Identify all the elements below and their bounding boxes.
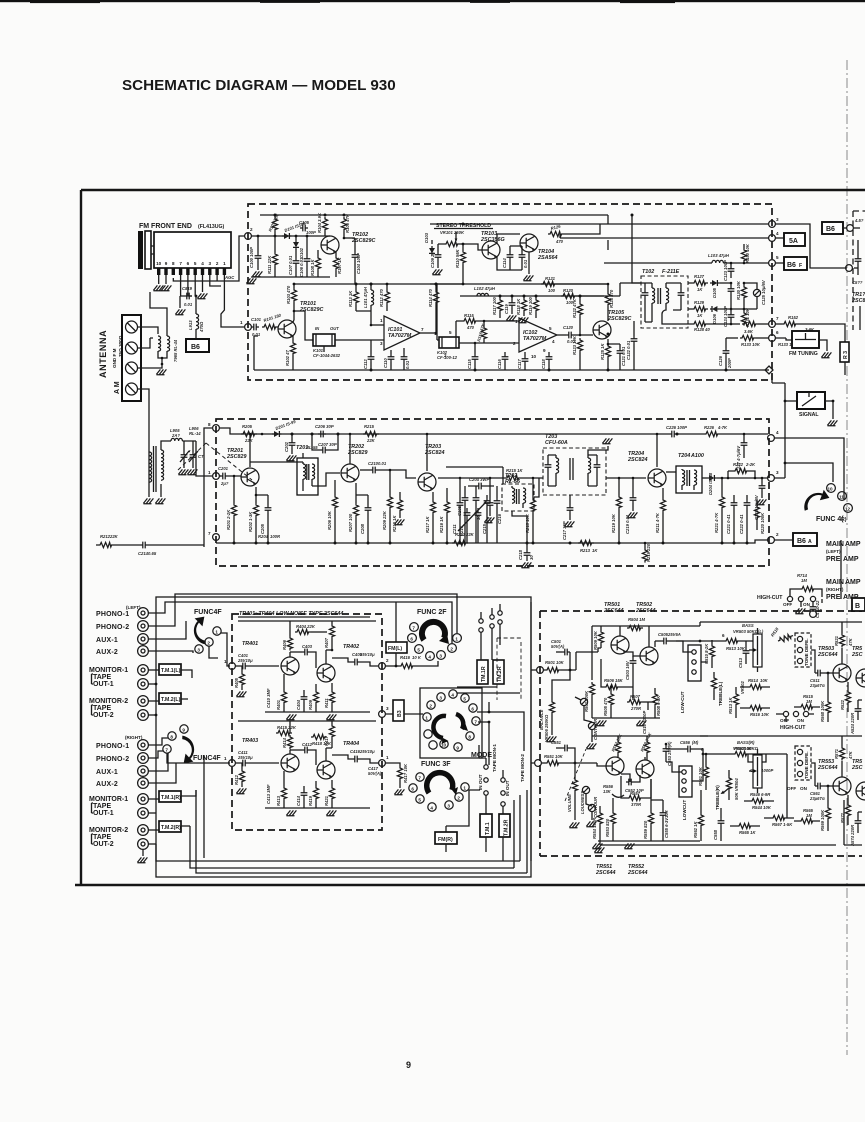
second rail [293, 283, 608, 285]
svg-text:9: 9 [182, 728, 185, 733]
R569 100K bias [827, 786, 829, 806]
svg-text:C219 0.01: C219 0.01 [625, 514, 630, 534]
terminal left edge L [537, 667, 544, 674]
svg-text:C410 3MF: C410 3MF [266, 688, 271, 708]
AUX-1 R jack [138, 766, 149, 777]
TREBLE(L) pot [711, 676, 716, 691]
svg-text:AGC: AGC [224, 275, 235, 280]
svg-text:FUNC4F: FUNC4F [193, 755, 221, 762]
svg-text:OUT-1: OUT-1 [93, 810, 114, 817]
R130 10K [741, 285, 746, 300]
C217 under T203 [569, 495, 571, 505]
resistor R111 22K [272, 252, 277, 267]
svg-text:B6: B6 [826, 226, 835, 233]
svg-text:0.01: 0.01 [523, 259, 528, 268]
svg-text:D105: D105 [712, 287, 717, 298]
svg-text:2SC829C: 2SC829C [299, 307, 323, 313]
terminal 2 right edge [379, 663, 386, 670]
C227 cap [743, 434, 745, 440]
R125 1K under TR105 emitter [607, 339, 609, 344]
svg-text:BASS: BASS [742, 623, 754, 628]
C551 cap [556, 747, 562, 749]
svg-text:R514: R514 [748, 678, 759, 683]
C503 cap [632, 656, 634, 658]
svg-text:10: 10 [156, 261, 162, 266]
svg-text:22K: 22K [109, 534, 119, 539]
svg-text:R129: R129 [694, 300, 705, 305]
C223 cap [761, 478, 763, 483]
svg-text:C216: C216 [497, 513, 502, 524]
HIGH-CUT switch contacts [787, 596, 792, 601]
C201 coupling cap [220, 473, 228, 480]
C210 coupling cap [360, 469, 370, 471]
R407 [329, 624, 334, 639]
svg-text:0.01: 0.01 [405, 360, 410, 369]
wire rod to term 1 of AM box [196, 441, 212, 476]
TR204 to T204 [666, 471, 676, 473]
svg-text:6: 6 [411, 787, 414, 792]
svg-text:R206 10K: R206 10K [327, 510, 332, 530]
pin 4 wire [202, 275, 204, 292]
svg-text:CFU-60A: CFU-60A [545, 440, 568, 446]
svg-text:R117 100: R117 100 [492, 296, 497, 315]
svg-text:T.M.2(R): T.M.2(R) [161, 825, 181, 831]
svg-text:MONITOR-1: MONITOR-1 [89, 796, 128, 803]
transistor TR501 [611, 636, 629, 654]
AUX-1 L jack [138, 634, 149, 645]
C218 detector cap [526, 542, 529, 545]
svg-text:D204 IS188: D204 IS188 [708, 472, 713, 495]
wire MONITOR-1 L to TM1 [148, 669, 159, 671]
svg-text:B6: B6 [191, 344, 200, 351]
svg-text:R114 470: R114 470 [428, 288, 433, 307]
svg-text:TAPE: TAPE [93, 834, 111, 841]
svg-text:R544 10K: R544 10K [752, 805, 772, 810]
svg-text:1M: 1M [806, 813, 812, 818]
svg-text:2SC644: 2SC644 [817, 652, 837, 658]
antenna terminal strip [122, 315, 141, 401]
svg-text:5: 5 [463, 697, 466, 702]
svg-text:AUX-1: AUX-1 [96, 637, 118, 644]
TR403 collector resistor [289, 721, 291, 754]
svg-text:C551: C551 [551, 740, 562, 745]
R219 220 hang [644, 543, 646, 548]
R127 1K + D105 [688, 282, 692, 284]
C414 [303, 786, 305, 790]
TAPE OUT-2 L jack [138, 710, 149, 721]
bottom bus wires [156, 755, 527, 873]
balun coil L-A [158, 336, 161, 351]
terminal 1 [245, 324, 252, 331]
top supply rail [260, 214, 608, 216]
C403 coupling [290, 651, 302, 653]
svg-text:8: 8 [170, 735, 173, 740]
R110 56K [460, 250, 465, 265]
balun coil L-B [167, 336, 170, 351]
svg-text:10K: 10K [556, 660, 565, 665]
diode D101 [282, 233, 291, 239]
svg-text:R216 1K: R216 1K [439, 515, 444, 533]
R201 2.2K bias resistor [233, 476, 235, 503]
C562 cut fragment [858, 812, 862, 818]
svg-text:R521: R521 [834, 635, 839, 646]
wire into signal meter [785, 400, 798, 402]
transistor TR103 [482, 241, 500, 259]
C404 [303, 690, 305, 694]
R568 100K bias [827, 673, 829, 700]
PHONO-2 L jack [138, 621, 149, 632]
T203 top ground [588, 446, 608, 455]
svg-text:C403: C403 [302, 644, 313, 649]
FUNC4F contact 2 [205, 638, 213, 646]
svg-text:R201 2-2K: R201 2-2K [226, 509, 231, 530]
HIGH-CUT mid switch [783, 711, 788, 716]
ground under C819 left [179, 296, 181, 308]
svg-text:30: 30 [529, 555, 534, 560]
svg-text:100: 100 [548, 288, 556, 293]
R215b 1K series [505, 475, 521, 480]
svg-text:MONITOR-1: MONITOR-1 [89, 667, 128, 674]
resistor R215 22K [363, 431, 379, 436]
C104 cap [354, 238, 356, 252]
svg-text:TA7027M: TA7027M [388, 333, 412, 339]
junction dots middle box [233, 433, 749, 545]
svg-text:D103: D103 [424, 232, 429, 243]
svg-text:R510 8-2K: R510 8-2K [704, 643, 709, 664]
svg-text:TR402: TR402 [343, 644, 359, 650]
svg-text:D106: D106 [712, 313, 717, 324]
TR401 collector resistor [289, 621, 291, 657]
transistor TR502 [640, 647, 658, 665]
supply rail top [238, 620, 376, 622]
terminal 4 right [768, 435, 775, 442]
svg-text:6: 6 [471, 707, 474, 712]
svg-text:R504 1M: R504 1M [628, 617, 646, 622]
input section wire box [156, 597, 531, 877]
wire pin4 to 5A [775, 237, 784, 239]
svg-text:TR401~TR404 LOW NOISE TYPE 2: TR401~TR404 LOW NOISE TYPE 2SC644 [239, 611, 343, 617]
svg-text:L913: L913 [188, 320, 193, 330]
junction dot left bus [155, 683, 158, 686]
R411 emitter [331, 683, 333, 690]
switch ground [800, 602, 802, 607]
svg-text:22K: 22K [244, 438, 254, 443]
capacitor C101 [251, 324, 259, 331]
svg-text:MONITOR-2: MONITOR-2 [89, 827, 128, 834]
terminal 7 [213, 534, 220, 541]
potentiometer VR101 [444, 241, 460, 246]
volume gang dashed link [565, 749, 586, 801]
svg-text:C117: C117 [517, 359, 522, 369]
diode D102 vertical [295, 236, 297, 240]
svg-text:PHONO-2: PHONO-2 [96, 624, 129, 631]
svg-text:10 K: 10 K [412, 655, 422, 660]
IN OUT contacts mid [484, 765, 488, 769]
svg-text:R124 470: R124 470 [609, 289, 614, 308]
svg-text:VR506 250KΩ: VR506 250KΩ [544, 714, 549, 742]
bottom rail [254, 369, 762, 371]
svg-text:C217 36P: C217 36P [562, 521, 567, 540]
svg-text:C119: C119 [504, 304, 509, 314]
TR103 collector/emitter wires [497, 234, 520, 243]
coil L913 [195, 296, 197, 314]
wire TAPE OUT-2 L [148, 714, 156, 716]
R509 collector resistor [598, 630, 603, 645]
svg-text:R219 220: R219 220 [646, 543, 651, 562]
svg-text:R118 1K: R118 1K [516, 298, 521, 315]
wire MONITOR-1 R to TM1R [148, 798, 159, 800]
svg-text:2: 2 [776, 532, 779, 537]
5A reference box [784, 233, 805, 246]
signal meter ground [827, 420, 837, 425]
outer frame [75, 190, 865, 885]
svg-text:3: 3 [380, 341, 383, 346]
junction node C819-L913 [195, 295, 198, 298]
R121 100 resistor [541, 281, 557, 286]
svg-text:OFF: OFF [787, 786, 796, 791]
svg-text:C114: C114 [502, 258, 507, 268]
svg-text:R561 10K: R561 10K [698, 766, 703, 786]
svg-text:6: 6 [722, 633, 725, 638]
svg-text:FM(L): FM(L) [388, 646, 402, 652]
svg-text:1: 1 [425, 716, 428, 721]
pin 5 wire joins L913 node [194, 275, 196, 296]
pins [157, 268, 226, 275]
C105 coupling cap [300, 225, 308, 232]
svg-text:3: 3 [776, 217, 779, 222]
svg-text:R415 22K: R415 22K [277, 725, 297, 730]
R513 1K [735, 687, 737, 692]
svg-text:1: 1 [208, 470, 211, 475]
feed wire to T102 [632, 215, 641, 283]
op-amp IC101 TA7027M [384, 316, 420, 350]
svg-text:2SC644: 2SC644 [603, 608, 623, 614]
svg-text:R112 470: R112 470 [379, 288, 384, 307]
svg-text:10: 10 [817, 608, 823, 613]
svg-text:1M: 1M [801, 578, 807, 583]
terminal at sheet edge [846, 265, 853, 272]
svg-text:2SC644: 2SC644 [817, 765, 837, 771]
R113 1K [353, 290, 358, 305]
svg-text:A100: A100 [690, 453, 704, 459]
transistor TR202 [341, 464, 359, 482]
wire front end pin8 to terminal 2 [173, 236, 244, 281]
pin 1 wire down to mixer out [221, 275, 244, 327]
svg-text:R220 100K: R220 100K [760, 512, 765, 534]
svg-text:R209 22K: R209 22K [382, 510, 387, 530]
TR104 ground [528, 252, 530, 274]
svg-text:TR403: TR403 [242, 738, 258, 744]
transistor TR402 [317, 664, 335, 682]
C556 cap top of lowcut [666, 748, 685, 750]
svg-text:TM.1R: TM.1R [481, 666, 487, 682]
svg-text:3: 3 [197, 648, 200, 653]
svg-text:R110 56K: R110 56K [455, 248, 460, 268]
svg-text:R127: R127 [694, 274, 705, 279]
svg-text:2SC: 2SC [851, 765, 863, 771]
svg-text:R120: R120 [563, 288, 574, 293]
svg-text:PRE: PRE [826, 594, 841, 601]
AUX-2 L jack [138, 646, 149, 657]
C505 cap [655, 640, 661, 642]
page fold line [846, 60, 848, 1055]
R221 4.7K [721, 478, 723, 495]
rail second to L102 [460, 295, 604, 297]
svg-text:100P: 100P [306, 230, 316, 235]
svg-text:CF-1044-2632: CF-1044-2632 [313, 353, 341, 358]
R563 10K [733, 751, 749, 756]
wire pin6 to FM TUNING [775, 338, 792, 340]
R502 100K [591, 626, 593, 680]
PHONO-2 R jack [138, 753, 149, 764]
BASS pot slider [753, 634, 762, 667]
svg-text:OFF: OFF [783, 602, 792, 607]
R124 470 above TR105 [605, 292, 610, 307]
wire to CT caps [182, 441, 196, 452]
wire terminal 3 to FUNC4 [774, 463, 833, 482]
BALANCE pot [552, 670, 570, 700]
wire balun up to front end [150, 292, 167, 332]
R220 100K [754, 505, 759, 520]
R226 4.7K on rail [704, 431, 720, 436]
variable capacitor CT-A [181, 452, 188, 460]
svg-text:R522: R522 [840, 699, 845, 710]
svg-text:7: 7 [474, 720, 477, 725]
svg-text:D102: D102 [299, 247, 304, 258]
R561 10K [705, 754, 707, 765]
svg-text:R421: R421 [324, 795, 329, 806]
svg-text:R507: R507 [630, 694, 641, 699]
capacitor C107 [293, 258, 300, 266]
svg-text:CT: CT [198, 454, 204, 459]
svg-text:VR503 50KΩ(L): VR503 50KΩ(L) [733, 629, 764, 634]
MONITOR-2 L jack [138, 696, 149, 707]
svg-text:1: 1 [386, 755, 389, 760]
terminal 3 right edge [379, 711, 386, 718]
R206 bias [334, 480, 336, 495]
R116 47K [483, 321, 485, 326]
svg-text:R205: R205 [242, 424, 253, 429]
svg-text:7: 7 [776, 316, 779, 321]
resistor R106 47K [341, 217, 346, 232]
tape monitor switch contacts [479, 619, 483, 623]
svg-text:R508 6-8K: R508 6-8K [656, 695, 661, 716]
TR101 collector wire [293, 320, 294, 322]
screw terminal FM75 [126, 342, 138, 354]
TR404 out C416 [332, 755, 352, 759]
rail from terminal 2 [251, 235, 330, 237]
svg-text:C208: C208 [360, 523, 365, 534]
C226 cap on rail [669, 431, 677, 438]
PHONO-1 R jack [138, 740, 149, 751]
svg-text:R409: R409 [308, 699, 313, 710]
TM1(R) box [159, 791, 181, 802]
bottom rail to diamond terminal [762, 369, 769, 371]
svg-text:AMP: AMP [845, 541, 861, 548]
wire contact1 to box input [221, 633, 230, 666]
svg-text:R406: R406 [282, 639, 287, 650]
wire AUX-2 R [148, 763, 176, 783]
vertical separator wires near MAIN AMP [840, 540, 842, 599]
resistor R205 22K [241, 431, 257, 436]
svg-text:2μ?: 2μ? [220, 481, 229, 486]
svg-text:1: 1 [463, 786, 466, 791]
svg-text:CONTOUR: CONTOUR [593, 797, 598, 818]
svg-text:4: 4 [552, 339, 555, 344]
svg-text:FM TUNING: FM TUNING [789, 351, 818, 357]
svg-text:6: 6 [410, 637, 413, 642]
filter out wire [459, 342, 519, 344]
supply rail top [592, 625, 700, 627]
svg-text:AUX-2: AUX-2 [96, 649, 118, 656]
wire to TR501 base [570, 648, 601, 670]
svg-text:470: 470 [466, 325, 475, 330]
transistor TR204 [648, 469, 666, 487]
svg-text:VR505 50KΩ: VR505 50KΩ [733, 746, 759, 751]
svg-text:R414: R414 [282, 737, 287, 748]
L101 coil 47uH [370, 284, 372, 290]
R112 470 [384, 290, 389, 305]
svg-text:1: 1 [223, 261, 226, 266]
TM2R box vertical [499, 814, 510, 837]
svg-text:C104 100P: C104 100P [356, 253, 361, 274]
R129 1K + D106 [688, 308, 692, 310]
svg-text:R553 820: R553 820 [605, 818, 610, 837]
svg-text:3: 3 [209, 261, 212, 266]
svg-text:(RIGHT): (RIGHT) [125, 735, 143, 740]
R565 1K [737, 823, 753, 828]
svg-text:6: 6 [776, 330, 779, 335]
C561 coupling cap [815, 783, 823, 790]
wire terminal 4 right [774, 438, 844, 500]
ground rail bottom [265, 807, 370, 809]
transistor TR102 [321, 236, 339, 254]
svg-text:R506: R506 [604, 678, 615, 683]
low noise amp dashed enclosure [232, 614, 382, 830]
C108 cap [344, 237, 355, 239]
C126 200P [725, 338, 727, 348]
wire B6A [774, 539, 794, 541]
TM2(R) box [159, 821, 181, 832]
sub ground rail [251, 276, 330, 278]
TR402 out C405 [332, 658, 352, 662]
tuning gang dashed link [178, 443, 206, 470]
svg-text:R401: R401 [276, 699, 281, 710]
svg-text:IN OUT: IN OUT [505, 780, 510, 796]
TR202 emitter resistor R207 [355, 483, 357, 503]
pin 7 wire to C818 [181, 275, 184, 296]
svg-text:4: 4 [201, 261, 204, 266]
R117 100 [497, 298, 502, 313]
pin5 rail with L103 [604, 262, 712, 264]
wire filter out to IC101 [335, 311, 384, 340]
caps under IC102: C115 [474, 343, 476, 354]
terminal 1b right edge [379, 760, 386, 767]
svg-text:1: 1 [515, 319, 518, 324]
svg-text:23μ6Tα: 23μ6Tα [809, 796, 825, 801]
IC101 output wire [420, 332, 436, 334]
screw terminal GND [126, 362, 138, 374]
T203 cap A [547, 455, 549, 462]
svg-text:F-211E: F-211E [662, 269, 680, 275]
TREBLE(R) pot [726, 776, 731, 791]
tape monitor link wires [457, 687, 520, 693]
C222 cap [746, 495, 748, 500]
svg-text:CF-100-12: CF-100-12 [437, 355, 458, 360]
svg-text:7: 7 [208, 531, 211, 536]
screw terminal FM300 [126, 321, 138, 333]
svg-text:R407: R407 [324, 637, 329, 648]
